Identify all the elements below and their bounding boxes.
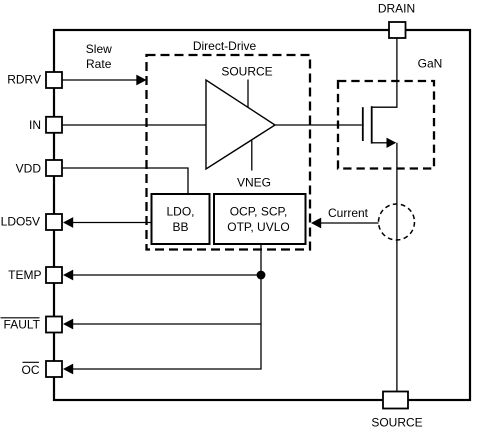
svg-text:TEMP: TEMP <box>8 268 41 282</box>
svg-text:IN: IN <box>29 118 41 132</box>
pin DRAIN terminal <box>389 22 406 38</box>
label TEMP <box>8 268 41 282</box>
label SOURCE driver supply <box>221 64 272 78</box>
wire GaN drain to DRAIN pad <box>372 38 397 107</box>
svg-text:VNEG: VNEG <box>237 175 271 189</box>
wire GaN source to SOURCE pad through current sense <box>396 143 398 392</box>
block LDO BB <box>152 194 210 244</box>
pin IN terminal <box>46 117 62 133</box>
pin RDRV terminal <box>46 72 62 88</box>
wire driver positive supply to SOURCE label <box>247 80 249 108</box>
wire protection block to TEMP pin <box>71 274 261 276</box>
pin VDD terminal <box>46 160 62 176</box>
svg-text:OTP, UVLO: OTP, UVLO <box>227 220 289 234</box>
wire GaN source lead <box>372 142 388 144</box>
arrowhead into OC pin <box>63 364 73 375</box>
svg-text:BB: BB <box>172 220 188 234</box>
pin OC terminal <box>46 361 62 377</box>
junction dot TEMP tap <box>257 271 266 280</box>
transistor Q1 channel bar <box>371 106 373 143</box>
pin TEMP terminal <box>46 267 62 283</box>
arrowhead into FAULT pin <box>63 319 73 330</box>
arrowhead into TEMP pin <box>63 270 73 281</box>
svg-text:Current: Current <box>328 206 369 220</box>
IC package outline <box>54 30 470 400</box>
svg-text:Direct-Drive: Direct-Drive <box>193 39 257 53</box>
label VDD <box>16 161 42 175</box>
svg-text:GaN: GaN <box>418 56 443 70</box>
wire LDO block to LDO5V pin <box>71 222 152 224</box>
GaN block outline <box>338 81 434 169</box>
current sense circle <box>379 204 415 240</box>
wire slew-rate arrow RDRV to Direct-Drive block <box>62 79 138 81</box>
pin LDO5V terminal <box>46 214 62 230</box>
arrowhead into LDO5V pin <box>63 217 73 228</box>
label Slew Rate <box>86 42 112 71</box>
label Current <box>328 206 369 220</box>
wire driver negative supply to VNEG label <box>251 141 253 171</box>
pin SOURCE terminal <box>383 392 408 409</box>
svg-text:SOURCE: SOURCE <box>371 415 422 429</box>
label LDO5V <box>1 215 40 229</box>
wire protection block to FAULT pin <box>71 323 261 325</box>
label FAULT with overline <box>1 318 41 332</box>
svg-text:FAULT: FAULT <box>4 318 41 332</box>
svg-text:LDO,: LDO, <box>166 205 194 219</box>
arrowhead slew-rate into Direct-Drive <box>136 75 146 86</box>
transistor Q1 gate bar <box>362 107 364 141</box>
driver amplifier A1 <box>206 80 275 169</box>
svg-text:OCP, SCP,: OCP, SCP, <box>230 205 288 219</box>
label Direct-Drive <box>193 39 257 53</box>
wire IN to driver input <box>62 124 206 126</box>
arrowhead current sense into protection block <box>311 218 321 229</box>
label RDRV <box>7 73 41 87</box>
label VNEG <box>237 175 271 189</box>
svg-text:Slew: Slew <box>86 42 112 56</box>
svg-text:OC: OC <box>22 363 40 377</box>
svg-text:RDRV: RDRV <box>7 73 41 87</box>
wire driver output to GaN gate <box>275 124 362 126</box>
label GaN <box>418 56 443 70</box>
label IN <box>29 118 41 132</box>
wire VDD to LDO block <box>62 168 188 195</box>
transistor Q1 source arrow <box>387 138 397 148</box>
label DRAIN <box>378 1 415 15</box>
svg-text:Rate: Rate <box>86 57 112 71</box>
wire current sense to protection block <box>321 222 379 224</box>
svg-text:LDO5V: LDO5V <box>1 215 40 229</box>
block OCP SCP OTP UVLO <box>214 194 306 244</box>
svg-text:VDD: VDD <box>16 161 42 175</box>
label OC with overline <box>22 362 40 377</box>
pin FAULT terminal <box>46 317 62 333</box>
label SOURCE bottom pad <box>371 415 422 429</box>
svg-text:SOURCE: SOURCE <box>221 64 272 78</box>
svg-text:DRAIN: DRAIN <box>378 1 415 15</box>
Direct-Drive block outline <box>147 55 311 250</box>
wire protection block to OC pin <box>71 244 261 369</box>
